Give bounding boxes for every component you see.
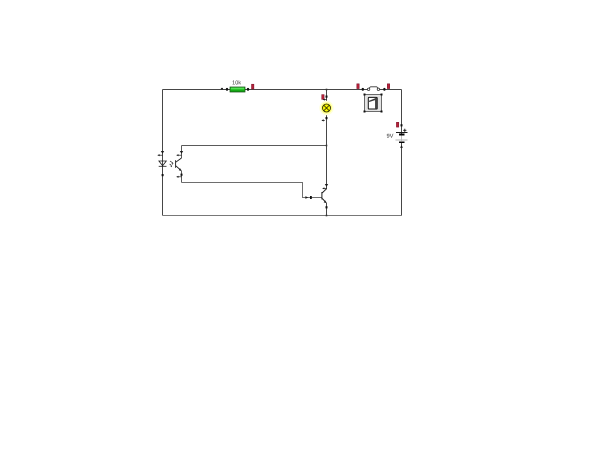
resistor value label 10k <box>233 80 242 84</box>
node bottom junction <box>326 215 328 217</box>
battery value label 9V <box>387 134 394 138</box>
wire left <box>162 90 164 216</box>
wire top <box>163 89 402 91</box>
red current bar right of resistor <box>252 84 254 89</box>
switch control box <box>364 94 383 113</box>
wire phototransistor emitter drop <box>181 171 183 183</box>
wire inner upper <box>182 145 327 147</box>
node transistor emitter <box>326 206 328 208</box>
phototransistor emitter arrowhead <box>179 168 182 171</box>
arrow phototransistor top (points left) <box>176 154 181 156</box>
red current bar above battery <box>396 122 398 127</box>
wire inner lower <box>182 183 322 198</box>
node battery top <box>401 124 403 126</box>
LED D1 (triangle + bar) <box>159 161 167 166</box>
arrow lamp top (points left) <box>323 99 327 101</box>
node lamp top <box>326 96 328 98</box>
node switch right <box>383 88 385 91</box>
current arrow transistor collector (points down) <box>325 184 328 187</box>
resistor R (10k) body <box>230 87 245 92</box>
node phototransistor emitter <box>181 174 183 176</box>
transistor Q2 (bar + C/E) <box>322 189 327 203</box>
current arrow on left wire (points down) <box>161 151 164 154</box>
wire bottom <box>163 215 402 217</box>
switch control box rocker icon <box>368 97 377 109</box>
lamp L1 glow <box>319 101 333 115</box>
current arrow transistor base (points right) <box>305 196 308 199</box>
battery plus sign <box>403 129 406 132</box>
node top T-junction lamp branch <box>326 89 328 91</box>
node inner junction at lamp branch <box>326 145 328 147</box>
wire lamp branch <box>326 90 328 216</box>
battery B1 9V plates <box>396 132 408 143</box>
switch SW1 contacts and blade <box>367 87 379 91</box>
wire right <box>401 90 403 216</box>
phototransistor Q1 light arrows <box>170 161 174 167</box>
red current bar left of switch <box>357 84 359 89</box>
lamp L1 <box>323 104 331 112</box>
node resistor left <box>226 88 228 91</box>
node resistor right <box>247 88 249 91</box>
transistor Q2 emitter arrowhead <box>324 200 327 203</box>
current arrow phototransistor collector (points down) <box>180 151 183 154</box>
node LED bottom <box>162 174 164 176</box>
arrow lamp bottom (points left) <box>322 119 325 121</box>
current arrow top wire (points left) <box>221 88 223 90</box>
red current bar right of switch <box>387 84 389 89</box>
arrow phototransistor emitter (points left) <box>176 176 181 178</box>
arrow LED top (points left) <box>157 154 162 156</box>
node lamp bottom <box>326 117 328 119</box>
red current bar above lamp <box>322 95 324 100</box>
node switch left <box>362 88 364 91</box>
current arrow below battery (points up) <box>400 145 403 148</box>
arrow transistor collector (points left) <box>322 187 326 189</box>
wire between battery cells (faint) <box>401 134 403 141</box>
node transistor base <box>310 196 312 199</box>
wire phototransistor collector drop <box>181 146 183 159</box>
phototransistor Q1 (bar + C/E) <box>176 158 182 171</box>
